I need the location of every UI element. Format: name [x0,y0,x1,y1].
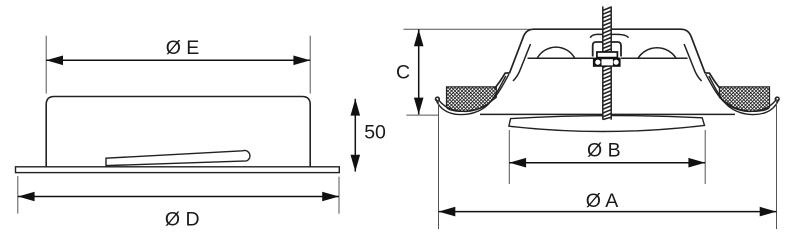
dim 50 arrow line [354,99,356,172]
hat inner slope left [513,44,531,81]
hump left [537,47,574,58]
dim E ext line left [45,36,47,94]
dim C arrow line [418,29,420,114]
inner horizontal line right [621,57,688,59]
hump right [638,48,676,58]
flange ring right rolled tip [775,97,779,101]
hat outer profile [495,29,721,88]
flange ring right lower line [709,76,779,115]
flange ring left lower line [436,76,506,115]
box body [46,97,310,168]
flange ring right upper line [706,74,777,111]
gasket left [447,87,497,112]
svg-text:Ø E: Ø E [166,37,200,59]
dim A arrow line [439,211,777,213]
inner horizontal line left [528,57,594,59]
svg-text:Ø A: Ø A [586,190,619,212]
flange ring left rolled tip [436,97,440,101]
svg-text:Ø B: Ø B [587,139,621,161]
dim C top extension line [404,28,531,30]
dim C bottom extension line [406,114,438,116]
dim B arrow line [509,162,705,164]
dim E ext line right [309,36,311,94]
nut bracket [593,42,621,57]
flange ring left upper line [438,74,509,111]
threaded rod [603,6,611,119]
dim B ext line right [704,130,706,184]
gasket right [719,87,769,112]
svg-text:50: 50 [364,122,386,144]
dim D arrow line [18,196,339,198]
dim A ext line left [438,99,440,229]
damper blade [106,150,250,165]
nut [597,52,618,58]
dim D ext line left [17,176,19,214]
spring arc [590,34,628,37]
rivet hole left [595,60,600,65]
base plate [16,167,340,173]
dim D ext line right [338,177,340,214]
svg-text:Ø D: Ø D [165,209,200,231]
rivet hole right [614,60,619,65]
dim A ext line right [776,100,778,229]
dim B ext line left [508,130,510,184]
rivet plate [593,58,621,67]
plate slot [602,59,613,65]
valve disc [509,116,705,132]
hat inner slope right [684,44,702,81]
svg-text:C: C [396,61,410,83]
dim E arrow line [46,59,310,61]
ceiling line [480,113,735,115]
